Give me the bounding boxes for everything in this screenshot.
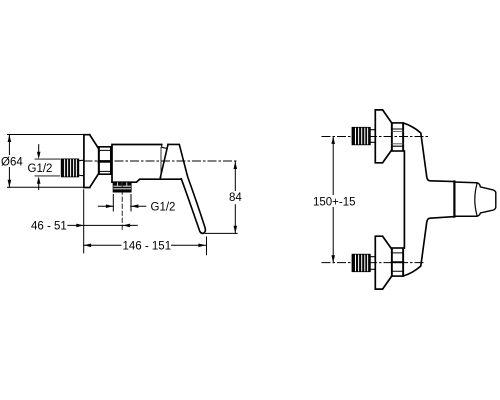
top inlet collar xyxy=(370,130,375,143)
handle grip cone xyxy=(454,182,476,216)
faucet body (left view) xyxy=(112,145,181,183)
connection nut (left view) xyxy=(99,147,111,174)
svg-text:G1/2: G1/2 xyxy=(28,163,53,175)
dimension 146-151 line xyxy=(84,244,206,246)
handle hub joint (dark vertical) xyxy=(453,182,455,217)
grip cap arc xyxy=(475,184,477,216)
handle left edge xyxy=(160,144,168,177)
top inlet thread (hatched) xyxy=(352,128,370,145)
dimension Ø64: extension lines xyxy=(8,135,85,188)
centerline top inlet xyxy=(322,136,431,138)
extension line handle tip horizontal (for 84) xyxy=(205,232,237,234)
dimension Ø64: arrows xyxy=(8,135,12,188)
outlet extension lines xyxy=(113,195,131,212)
inlet pipe thread (hatched) xyxy=(62,159,79,176)
bottom inlet thread (hatched) xyxy=(352,255,370,272)
body left edge (right view) xyxy=(403,151,405,248)
dimension G1/2 (inlet): extension lines xyxy=(35,159,60,176)
text labels xyxy=(1,157,356,253)
body right step notch xyxy=(162,145,167,149)
dimension 84 vertical line xyxy=(234,162,236,234)
dimension 46-51 line xyxy=(68,224,138,226)
dimension 150+-15 vertical line xyxy=(332,137,334,263)
extension line wall plane xyxy=(83,190,85,253)
dimension G1/2 (outlet): arrows xyxy=(98,205,146,207)
body right outline bottom xyxy=(403,217,454,276)
top nut xyxy=(392,123,404,151)
escutcheon (left view flange) xyxy=(84,135,99,188)
svg-text:84: 84 xyxy=(229,192,242,204)
svg-text:150+-15: 150+-15 xyxy=(313,196,356,208)
extension line handle tip vertical xyxy=(206,237,208,255)
centerline bottom inlet xyxy=(322,262,425,264)
top escutcheon xyxy=(375,110,391,163)
grip end cap xyxy=(477,183,496,216)
lever handle (left view) xyxy=(168,144,205,233)
body right outline top xyxy=(403,123,454,182)
dimension G1/2 (inlet): arrows/lines xyxy=(38,145,40,190)
svg-text:Ø64: Ø64 xyxy=(1,157,23,169)
svg-text:46 - 51: 46 - 51 xyxy=(31,220,67,232)
bottom escutcheon xyxy=(375,236,391,289)
outlet dashed centerline xyxy=(121,183,123,232)
bottom nut xyxy=(392,248,404,276)
cartridge seam (vertical) xyxy=(160,148,162,178)
dimension Ø64: vertical line xyxy=(8,135,10,188)
inlet pipe neck xyxy=(79,160,84,175)
svg-text:G1/2: G1/2 xyxy=(151,201,176,213)
bottom inlet collar xyxy=(370,257,375,270)
svg-text:146 - 151: 146 - 151 xyxy=(123,240,172,252)
centerline horizontal (left view) xyxy=(84,160,238,162)
outlet with thread (left view) xyxy=(113,182,131,192)
